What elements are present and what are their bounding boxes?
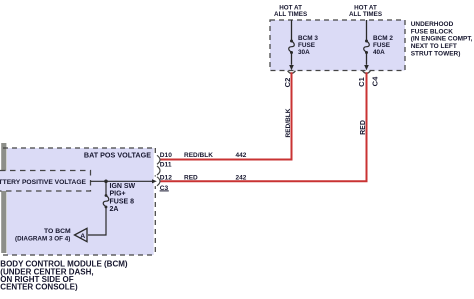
value label BCM 2 FUSE 40A [373,35,393,56]
label UNDERHOOD FUSE BLOCK location [411,21,473,58]
pin D12 terminal cup [157,177,160,186]
fuse IGN SW PIG+ FUSE 8 2A (element symbol) [103,194,109,208]
svg-text:ALL TIMES: ALL TIMES [274,11,307,18]
svg-text:242: 242 [236,174,247,181]
svg-text:40A: 40A [373,49,385,56]
svg-text:RED/BLK: RED/BLK [285,108,292,137]
svg-text:UNDERHOOD: UNDERHOOD [411,21,454,28]
BCM module box [3,148,155,255]
svg-text:RED/BLK: RED/BLK [184,152,213,159]
svg-text:442: 442 [236,152,247,159]
wire: feed into BCM 3 fuse [291,20,293,40]
svg-text:FUSE BLOCK: FUSE BLOCK [411,28,454,35]
inner box BATTERY POSITIVE VOLTAGE [0,171,91,192]
svg-text:CENTER CONSOLE): CENTER CONSOLE) [0,283,78,292]
svg-text:BCM 3: BCM 3 [298,35,318,42]
off-page connector A (triangle) [75,228,88,241]
svg-text:C4: C4 [371,76,380,86]
connector label C3 (underlined) [160,185,169,192]
svg-text:FUSE: FUSE [298,42,316,49]
fuse BCM 2 (element symbol) [364,40,370,55]
svg-text:TO BCM: TO BCM [44,228,71,235]
svg-text:(DIAGRAM 3 OF 4): (DIAGRAM 3 OF 4) [15,236,70,243]
svg-text:BCM 2: BCM 2 [373,35,393,42]
svg-text:C1: C1 [357,76,366,86]
underhood fuse block box [270,20,405,71]
svg-text:D10: D10 [160,152,172,159]
svg-text:IGN SW: IGN SW [110,183,136,190]
svg-text:2A: 2A [110,206,119,213]
svg-text:BATTERY POSITIVE VOLTAGE: BATTERY POSITIVE VOLTAGE [0,179,87,186]
wire RED 242 (red) [161,72,367,181]
adjacent cropped module bar [1,143,6,253]
wire RED/BLK 442 (red) [161,72,292,159]
svg-text:FUSE: FUSE [373,42,391,49]
border gaps at pin rows [154,155,156,186]
wire with arrow: BCM 2 fuse output to block edge [364,53,369,71]
label HOT AT ALL TIMES (right) [349,4,382,18]
label BODY CONTROL MODULE (BCM) location [0,260,128,292]
pin D11 terminal cup [157,166,160,175]
svg-text:A: A [80,233,85,240]
label HOT AT ALL TIMES (left) [274,4,307,18]
wire: internal fuse to off-page connector A [88,207,106,235]
svg-text:30A: 30A [298,49,310,56]
svg-text:NEXT TO LEFT: NEXT TO LEFT [411,43,457,50]
wire: junction down to internal fuse [105,181,107,195]
terminal cup at fuse block exit (right) [363,71,371,74]
value label IGN SW PIG+ FUSE 8 2A [110,183,136,213]
svg-text:PIG+: PIG+ [110,191,126,198]
value label BCM 3 FUSE 30A [298,35,318,56]
fuse BCM 3 (element symbol) [289,40,295,55]
svg-text:RED: RED [360,120,367,135]
label TO BCM (DIAGRAM 3 OF 4) [15,228,71,243]
junction node [104,180,108,184]
wire with arrow: BCM 3 fuse output to block edge [289,53,294,71]
svg-text:D12: D12 [160,174,172,181]
svg-text:FUSE 8: FUSE 8 [110,198,135,205]
svg-text:D11: D11 [160,162,172,169]
wire: feed into BCM 2 fuse [366,20,368,40]
wire: battery positive voltage to pin D12 [91,179,157,183]
svg-text:ALL TIMES: ALL TIMES [349,11,382,18]
svg-text:BAT POS VOLTAGE: BAT POS VOLTAGE [84,150,151,159]
svg-text:(IN ENGINE COMPT,: (IN ENGINE COMPT, [411,36,473,43]
terminal cup at fuse block exit (left) [288,71,296,74]
svg-text:STRUT TOWER): STRUT TOWER) [411,51,461,58]
svg-text:RED: RED [184,174,198,181]
pin D10 terminal cup [157,155,160,164]
